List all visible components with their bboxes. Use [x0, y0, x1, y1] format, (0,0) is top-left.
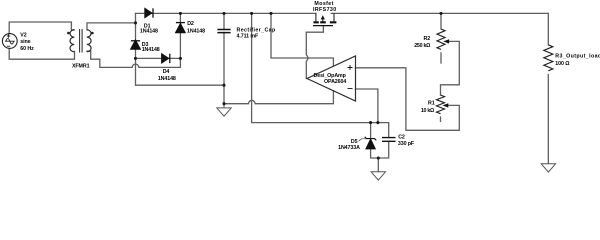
svg-text:1N4148: 1N4148 [140, 29, 158, 35]
R2 wiper arrow [443, 39, 449, 43]
wire R2 bottom dangling lead [440, 53, 442, 63]
svg-text:1N4733A: 1N4733A [338, 145, 360, 151]
junction minus rail at cap bottom [222, 84, 225, 87]
ground (bridge/cap ground) [217, 104, 231, 117]
diode D3 [131, 40, 141, 49]
junction node plus rail at D2 [179, 12, 182, 15]
wire R2 top lead [440, 13, 442, 29]
wire rectifier cap bottom lead to ground node [223, 32, 225, 103]
junction plus rail at cap [222, 12, 225, 15]
junction node minus (D3 anode / D4 anode) [134, 57, 137, 60]
wire zener D5 bottom lead and bottom tie line [371, 142, 389, 158]
junction plus rail op-amp supply feed [269, 12, 272, 15]
svg-text:1N4148: 1N4148 [187, 28, 205, 34]
svg-text:XFMR1: XFMR1 [72, 63, 90, 69]
junction reference node at D5 [369, 121, 372, 124]
label Mosfet IRFS730 [313, 1, 337, 13]
source V2 [2, 34, 17, 49]
resistor R3_Output_load [544, 45, 553, 71]
svg-text:4.711 mF: 4.711 mF [237, 34, 259, 40]
svg-text:IRFS730: IRFS730 [313, 7, 337, 13]
wire reference line to C2 top [371, 123, 389, 137]
wire ground rail to op-amp V- (with hop over zener feed wire) [224, 91, 333, 104]
svg-text:sine: sine [20, 39, 30, 45]
wire zener D5 top lead [370, 123, 372, 138]
op-amp - input marker [348, 88, 353, 90]
wire R1 bottom dangling lead [440, 117, 442, 121]
wire MOSFET gate to op-amp output (arc detour over V+ feed) [306, 26, 323, 79]
wire R3 bottom lead to ground [547, 75, 549, 164]
label R3_Output_load 100 Ω [555, 54, 600, 67]
svg-text:100 Ω: 100 Ω [555, 61, 570, 67]
transformer secondary phase dot [91, 32, 94, 35]
diode D2 [176, 23, 186, 33]
label D3 1N4148 [142, 42, 160, 53]
svg-text:60 Hz: 60 Hz [20, 46, 34, 52]
junction plus rail at R2 [439, 12, 442, 15]
label D1 1N4148 [140, 23, 158, 34]
svg-text:330 pF: 330 pF [398, 141, 415, 147]
svg-text:1N4148: 1N4148 [142, 47, 160, 53]
wire D4 rail (bridge minus diagonal) [136, 57, 181, 59]
junction node AC2 (D2 anode / D4 cathode) [179, 57, 182, 60]
junction ground node at cap [222, 102, 225, 105]
svg-text:D2: D2 [187, 21, 194, 27]
svg-text:OPA2604: OPA2604 [324, 79, 346, 85]
diode D1 [145, 8, 153, 17]
wire D2 cathode stub [179, 13, 181, 21]
leader line for D5 label [359, 139, 367, 141]
wire top positive rail right section (MOSFET source to R3) [331, 12, 548, 14]
svg-text:R1: R1 [428, 101, 435, 107]
wire unregulated rail down to zener reference line [252, 13, 371, 122]
label Rectifier_Cap 4.711 mF [237, 28, 276, 40]
wire op-amp + input to R1 wiper [356, 68, 460, 131]
svg-text:D5: D5 [351, 139, 358, 145]
wire transformer secondary top to bridge node TL [87, 23, 136, 30]
wire D3 anode to minus node and minus rail to cap bottom [136, 49, 225, 85]
label C2 330 pF [398, 134, 415, 147]
svg-text:D4: D4 [163, 69, 170, 75]
mosfet body arrow [321, 15, 325, 19]
wire R2 wiper to R1 top [441, 41, 460, 95]
svg-text:10 kΩ: 10 kΩ [421, 108, 435, 114]
wire rectifier cap top lead [223, 13, 225, 29]
wire bridge left vertical D1 anode / D3 branch [135, 13, 137, 40]
transformer XFMR1 [70, 29, 91, 53]
wire transformer secondary bottom to node AC2 (with hop over minus rail) [87, 51, 180, 67]
svg-text:250 kΩ: 250 kΩ [414, 43, 431, 49]
ground (zener reference ground) [371, 172, 385, 180]
op-amp + input marker [348, 65, 353, 70]
label Desi_OpAmp OPA2604 [314, 73, 347, 85]
R1 wiper arrow [443, 103, 449, 107]
wire op-amp - input to reference node [356, 89, 378, 123]
op-amp U1 OPA2604 (mirrored, inputs right) [307, 56, 356, 101]
label D5 1N4733A with leader [338, 139, 360, 151]
capacitor Rectifier_Cap [217, 30, 230, 33]
wire top positive rail left section (bridge output to MOSFET drain) [136, 12, 316, 14]
potentiometer R2 [437, 29, 445, 49]
junction zener bottom ground stem [377, 156, 380, 159]
svg-text:C2: C2 [398, 134, 405, 140]
svg-text:V2: V2 [20, 32, 26, 38]
wire V2 bottom to transformer primary bottom [9, 48, 74, 59]
svg-text:1N4148: 1N4148 [158, 76, 176, 82]
label R2 250 kΩ [414, 36, 431, 49]
label D4 1N4148 [158, 69, 176, 82]
label D2 1N4148 [187, 21, 205, 34]
capacitor C2 [382, 138, 396, 142]
svg-text:R2: R2 [424, 36, 431, 42]
potentiometer R1 [437, 95, 445, 114]
zener diode D5 [365, 137, 377, 149]
label R1 10 kΩ [421, 101, 435, 114]
svg-text:R3_Output_load: R3_Output_load [555, 54, 600, 60]
mosfet Q1 IRFS730 [313, 13, 336, 25]
junction node TL (secondary top / D1 / D3) [134, 21, 137, 24]
label V2 sine 60 Hz [20, 32, 34, 52]
wire V2 top to transformer primary top [9, 22, 74, 34]
transformer primary phase dot [67, 32, 70, 35]
wire R3 top lead [547, 13, 549, 44]
wire op-amp V+ supply feed [271, 13, 333, 65]
wire D2 anode down to AC2 corner [179, 33, 181, 59]
ground (output load ground) [541, 164, 555, 172]
junction plus rail zener feed [250, 12, 253, 15]
junction reference node at op-amp minus [376, 121, 379, 124]
wire ground stem below zener/C2 [377, 158, 379, 172]
diode D4 [162, 54, 170, 63]
svg-text:Desi_OpAmp: Desi_OpAmp [314, 73, 347, 79]
